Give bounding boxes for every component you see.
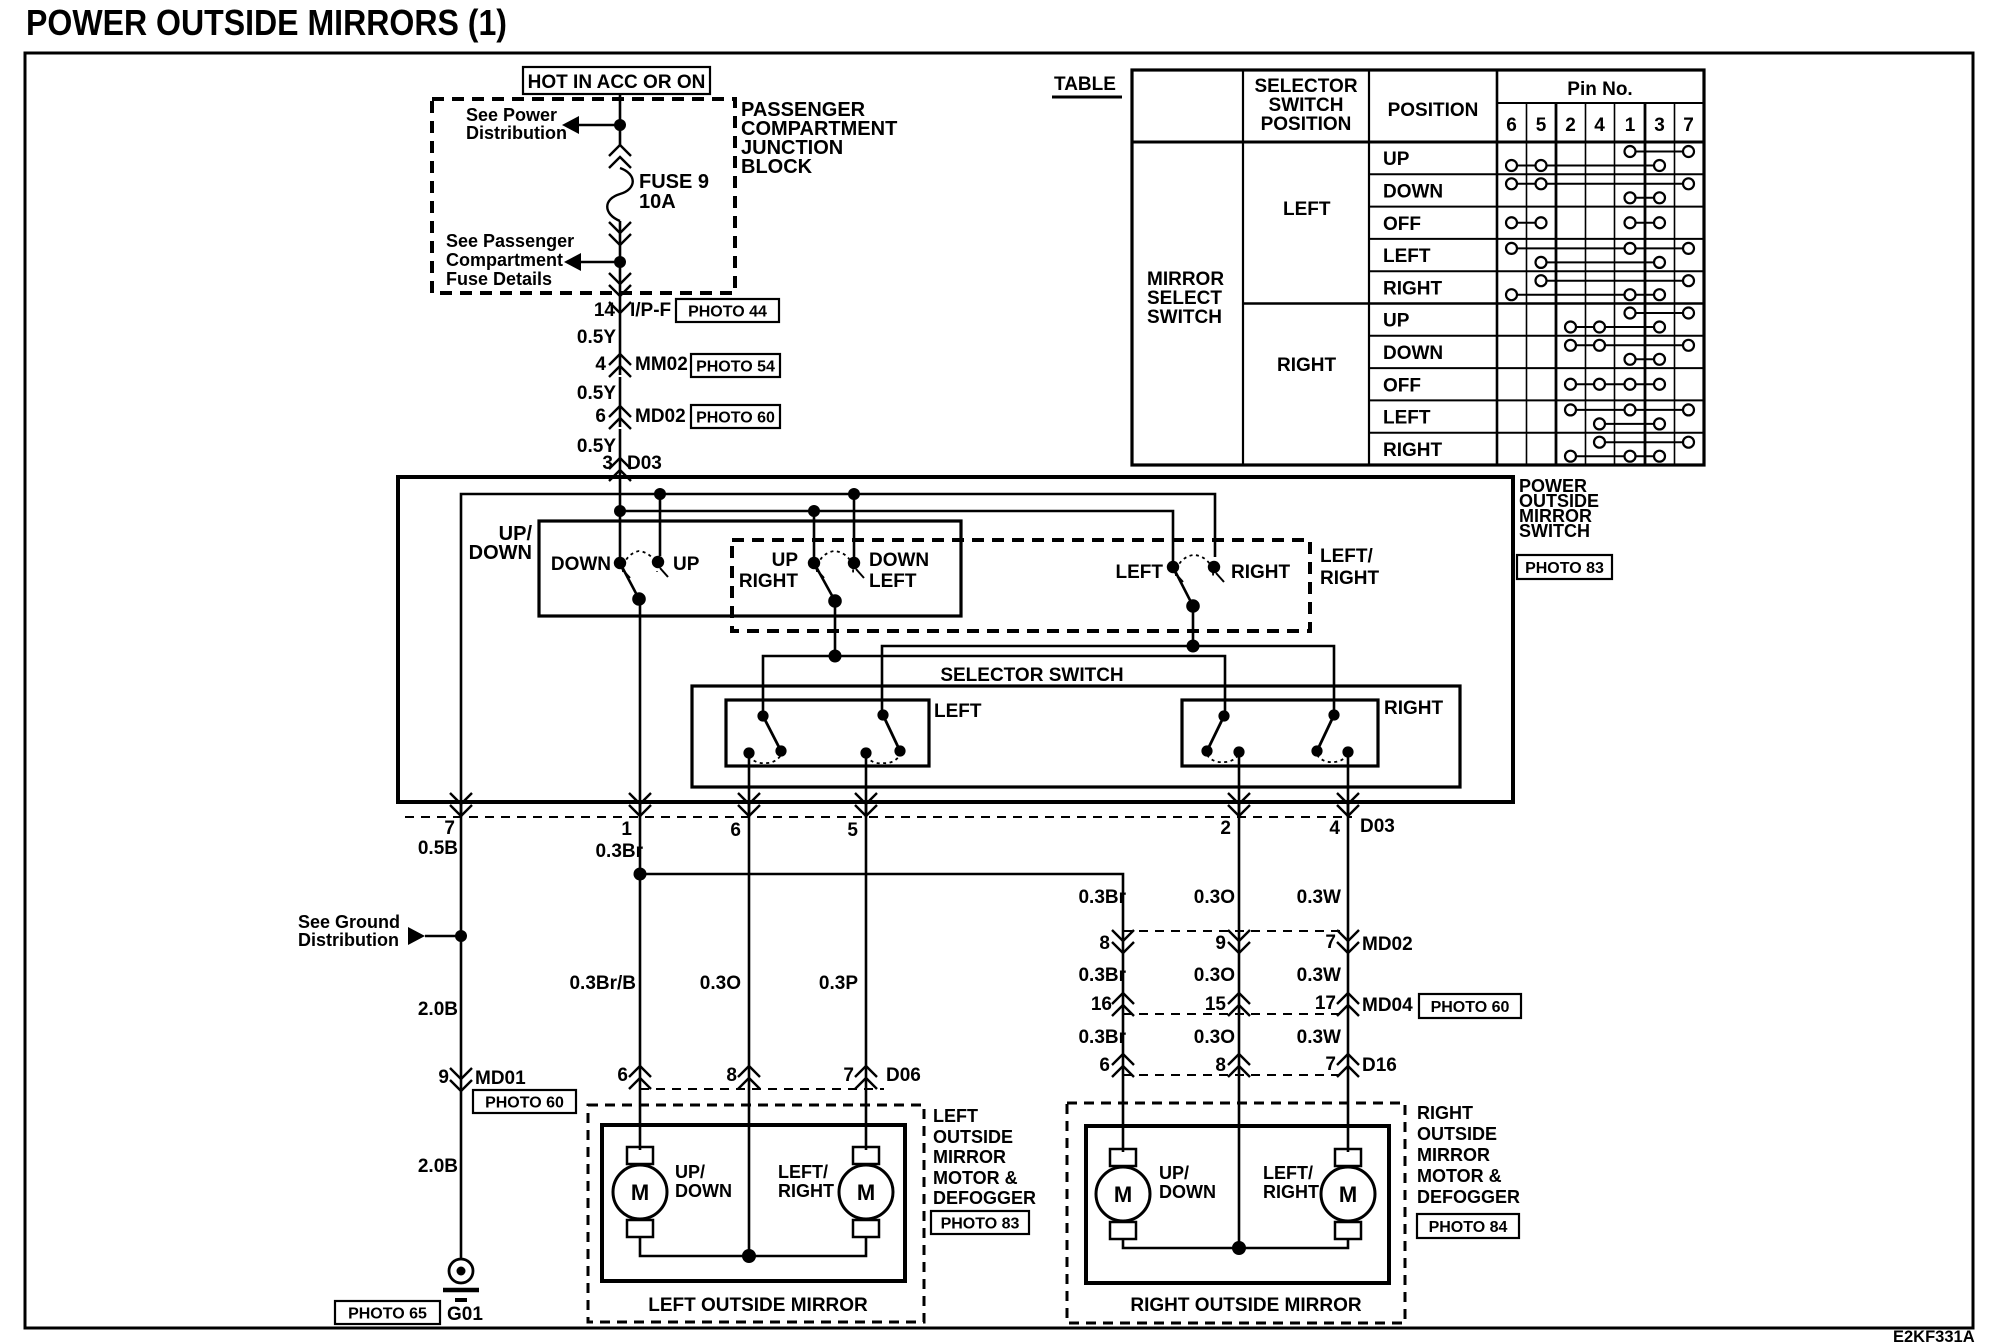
wire S2 common down (834, 601, 837, 656)
motor M4 right-mirror left/right body (1321, 1167, 1375, 1221)
svg-text:0.3Br: 0.3Br (1078, 965, 1126, 986)
svg-text:LEFT/: LEFT/ (1263, 1163, 1313, 1183)
node J1 see power distribution tap (614, 119, 626, 131)
svg-text:3: 3 (1654, 115, 1665, 136)
svg-text:RIGHT: RIGHT (778, 1181, 834, 1201)
motor M2 left-mirror left/right brush top (853, 1147, 879, 1164)
svg-text:PHOTO 60: PHOTO 60 (485, 1094, 564, 1111)
svg-text:8: 8 (1215, 1055, 1226, 1076)
table header line below Pin No. (1497, 102, 1704, 104)
wire left mirror common rail (640, 1236, 866, 1256)
svg-text:Fuse Details: Fuse Details (446, 269, 552, 289)
switch S2 up-right/down-left travel arc (817, 551, 853, 573)
svg-text:See Power: See Power (466, 105, 557, 125)
motor M3 right-mirror up/down body (1096, 1167, 1150, 1221)
svg-text:MM02: MM02 (635, 354, 688, 375)
svg-text:0.3O: 0.3O (700, 973, 741, 994)
svg-text:UP/: UP/ (1159, 1163, 1189, 1183)
svg-text:MIRROR: MIRROR (933, 1147, 1006, 1167)
selector D (right mirror l/r) top contact (1328, 709, 1339, 720)
connector D16 pin 8 arrows (1228, 1054, 1250, 1065)
connector D06 pin 8 arrows (738, 1066, 760, 1077)
photo ref PHOTO 84 (1417, 1214, 1519, 1238)
svg-text:TABLE: TABLE (1054, 74, 1116, 95)
svg-text:DOWN: DOWN (469, 542, 532, 564)
left outside mirror inner box (602, 1125, 905, 1281)
node UP-R1 junction (654, 488, 666, 500)
table column line col1-col2 (1242, 70, 1244, 465)
wire to see power distribution (578, 124, 620, 127)
node branch to right mirror (634, 868, 647, 881)
selector B (left mirror l/r) travel arc (866, 755, 900, 763)
selector C (right mirror up/down) arm tip (1201, 745, 1212, 756)
wire rail R2 (feed tie) (620, 511, 1173, 563)
svg-text:PHOTO 54: PHOTO 54 (696, 358, 775, 375)
svg-text:9: 9 (438, 1067, 449, 1088)
wire DOWN LEFT contact drop (853, 494, 856, 558)
switch S1 up/down travel arc (623, 551, 657, 572)
svg-text:0.3Br/B: 0.3Br/B (569, 973, 636, 994)
connector MD04 dashed line (1123, 1013, 1348, 1015)
right outside mirror dashed box (1067, 1103, 1405, 1323)
wire selector D output to pin4 (1347, 752, 1350, 817)
svg-text:UP/: UP/ (675, 1162, 705, 1182)
svg-text:5: 5 (1536, 115, 1547, 136)
connector MD02 pin 8 arrows (1112, 930, 1134, 941)
photo ref PHOTO 60 MD04 (1419, 994, 1521, 1018)
connector D03 pin 4 arrows (1337, 793, 1359, 804)
svg-text:LEFT: LEFT (933, 1106, 978, 1126)
switch S3 left/right common (1186, 599, 1200, 613)
svg-text:D16: D16 (1362, 1055, 1397, 1076)
photo ref PHOTO 65 (335, 1301, 440, 1324)
left outside mirror dashed box (588, 1105, 924, 1322)
svg-text:8: 8 (726, 1065, 737, 1086)
svg-text:6: 6 (595, 406, 606, 427)
connector D03 pin 1 arrows (629, 793, 651, 804)
svg-text:BLOCK: BLOCK (741, 156, 813, 178)
svg-text:M: M (1114, 1182, 1132, 1207)
selector switch box (692, 686, 1460, 787)
svg-text:7: 7 (1683, 115, 1694, 136)
svg-text:1: 1 (1625, 115, 1636, 136)
connector D06 pin 7 arrows (855, 1066, 877, 1077)
switch S3 left/right right contact (1208, 561, 1220, 573)
svg-text:PHOTO 83: PHOTO 83 (1525, 560, 1604, 577)
motor M4 right-mirror left/right brush top (1335, 1149, 1361, 1166)
photo ref PHOTO 54 (691, 354, 780, 377)
table contacts row LEFT OFF (1512, 222, 1542, 224)
svg-text:PHOTO 65: PHOTO 65 (348, 1305, 427, 1322)
wire feed into DOWN contact (619, 477, 622, 558)
wire I/P-F to MM02 (619, 313, 622, 375)
wire pin6 down to D06 (748, 802, 751, 1256)
table header bottom line (1132, 141, 1704, 144)
connector D16 pin 7 arrows (1337, 1054, 1359, 1065)
svg-text:PHOTO 60: PHOTO 60 (696, 409, 775, 426)
svg-text:SWITCH: SWITCH (1519, 521, 1590, 541)
svg-text:DOWN: DOWN (869, 550, 929, 571)
wire pin1 down to D06 (639, 802, 642, 1150)
svg-text:0.3O: 0.3O (1194, 1027, 1235, 1048)
svg-text:RIGHT: RIGHT (1384, 698, 1444, 719)
wire selector A output to pin6 (748, 753, 751, 817)
svg-text:2: 2 (1565, 115, 1576, 136)
wire rail R4 to selector tops (882, 646, 1334, 710)
ground G01 symbol (449, 1259, 473, 1283)
svg-text:M: M (1339, 1182, 1357, 1207)
selector D (right mirror l/r) output contact (1342, 746, 1353, 757)
svg-text:POWER OUTSIDE MIRRORS (1): POWER OUTSIDE MIRRORS (1) (26, 2, 507, 43)
svg-text:RIGHT: RIGHT (1383, 440, 1443, 461)
svg-text:4: 4 (1594, 115, 1605, 136)
selector C (right mirror up/down) output contact (1233, 746, 1244, 757)
svg-text:2.0B: 2.0B (418, 1156, 458, 1177)
right outside mirror inner box (1086, 1126, 1389, 1283)
svg-text:OUTSIDE: OUTSIDE (933, 1127, 1013, 1147)
svg-text:RIGHT: RIGHT (1277, 355, 1337, 376)
motor M3 right-mirror up/down brush top (1110, 1149, 1136, 1166)
up/down switch box (539, 521, 961, 616)
table column line col2-col3 (1368, 70, 1370, 465)
connector MD04 pin 16 arrows (1112, 993, 1134, 1004)
connector MD01 pin 9 arrows (450, 1068, 472, 1079)
svg-text:UP: UP (1383, 311, 1410, 332)
svg-text:3: 3 (602, 453, 613, 474)
switch S3 left/right travel arc (1176, 555, 1213, 577)
svg-text:D06: D06 (886, 1065, 921, 1086)
svg-text:0.3O: 0.3O (1194, 887, 1235, 908)
svg-text:DOWN: DOWN (1383, 181, 1443, 202)
svg-text:RIGHT OUTSIDE MIRROR: RIGHT OUTSIDE MIRROR (1130, 1295, 1361, 1316)
switch S3 left/right arm (1173, 567, 1193, 606)
photo ref PHOTO 60 MD01 (473, 1090, 576, 1113)
table contacts row LEFT LEFT (1512, 247, 1689, 249)
svg-text:RIGHT: RIGHT (1383, 278, 1443, 299)
selector A (left mirror up/down) top contact (757, 710, 768, 721)
selector RIGHT box (1182, 700, 1378, 766)
svg-text:4: 4 (595, 354, 606, 375)
svg-text:OFF: OFF (1383, 214, 1421, 235)
svg-text:HOT IN ACC OR ON: HOT IN ACC OR ON (528, 72, 706, 93)
svg-text:9: 9 (1215, 933, 1226, 954)
svg-text:LEFT: LEFT (869, 571, 917, 592)
svg-text:17: 17 (1315, 993, 1336, 1014)
svg-text:PHOTO 83: PHOTO 83 (941, 1215, 1020, 1232)
svg-text:7: 7 (1325, 932, 1336, 953)
svg-text:0.5Y: 0.5Y (577, 383, 616, 404)
svg-text:Distribution: Distribution (466, 123, 567, 143)
passenger compartment junction block (dashed) (432, 99, 735, 293)
svg-text:D03: D03 (1360, 816, 1395, 837)
svg-text:RIGHT: RIGHT (1231, 562, 1291, 583)
connector MD04 pin 15 arrows (1228, 993, 1250, 1004)
svg-text:LEFT: LEFT (1383, 408, 1431, 429)
motor M1 left-mirror up/down brush bottom (627, 1220, 653, 1237)
table outer border (1132, 70, 1704, 465)
connector MD04 pin 17 arrows (1337, 993, 1359, 1004)
table contacts row RIGHT UP (1630, 312, 1689, 314)
svg-text:MD02: MD02 (1362, 934, 1413, 955)
svg-text:0.3Br: 0.3Br (595, 841, 643, 862)
svg-text:1: 1 (621, 819, 632, 840)
svg-text:Compartment: Compartment (446, 250, 563, 270)
wire S3 common down (1192, 605, 1195, 646)
node J2 see fuse details tap (614, 256, 626, 268)
svg-text:PHOTO 60: PHOTO 60 (1431, 999, 1510, 1016)
motor M2 left-mirror left/right body (839, 1165, 893, 1219)
svg-text:DOWN: DOWN (1159, 1182, 1216, 1202)
connector arrow above fuse (609, 145, 631, 156)
wire UP contact drop (659, 494, 662, 556)
wire ground distribution tap (425, 935, 461, 938)
table pin column lines (1526, 103, 1528, 465)
svg-text:M: M (631, 1180, 649, 1205)
selector A (left mirror up/down) arm tip (775, 745, 786, 756)
connector MD02 pin 7 arrows (1337, 930, 1359, 941)
switch S2 up-right/down-left left contact (808, 557, 820, 569)
selector A (left mirror up/down) output contact (743, 747, 754, 758)
switch S1 up/down left contact (614, 557, 626, 569)
node right mirror rail junction (1232, 1241, 1246, 1255)
switch S1 up/down right contact (652, 556, 664, 568)
svg-text:See Passenger: See Passenger (446, 231, 574, 251)
motor M1 left-mirror up/down body (613, 1165, 667, 1219)
node DOWNLEFT-R1 junction (848, 488, 860, 500)
svg-text:SWITCH: SWITCH (1147, 307, 1222, 328)
selector C (right mirror up/down) travel arc (1207, 754, 1239, 762)
arrow see passenger fuse details (564, 253, 581, 271)
svg-text:7: 7 (444, 818, 455, 839)
svg-text:10A: 10A (639, 191, 676, 213)
table contacts row LEFT DOWN (1512, 183, 1689, 185)
svg-text:MOTOR &: MOTOR & (1417, 1166, 1502, 1186)
selector D (right mirror l/r) arm (1317, 715, 1334, 751)
svg-text:MD04: MD04 (1362, 995, 1413, 1016)
svg-text:PHOTO 84: PHOTO 84 (1429, 1219, 1508, 1236)
svg-text:LEFT: LEFT (934, 701, 982, 722)
switch S2 up-right/down-left right contact (848, 557, 860, 569)
svg-text:LEFT/: LEFT/ (778, 1162, 828, 1182)
svg-text:G01: G01 (447, 1304, 483, 1325)
svg-text:7: 7 (1325, 1054, 1336, 1075)
connector D03 dashed line at switch bottom (405, 816, 1352, 818)
connector D06 pin 6 arrows (629, 1066, 651, 1077)
connector D03 pin 5 arrows (855, 793, 877, 804)
svg-text:MD01: MD01 (475, 1068, 526, 1089)
svg-text:LEFT: LEFT (1116, 562, 1164, 583)
svg-text:M: M (857, 1180, 875, 1205)
svg-text:I/P-F: I/P-F (630, 300, 671, 321)
svg-text:See Ground: See Ground (298, 912, 400, 932)
svg-text:6: 6 (730, 820, 741, 841)
svg-text:LEFT/: LEFT/ (1320, 546, 1373, 567)
switch S1 up/down common (632, 592, 646, 606)
svg-text:DEFOGGER: DEFOGGER (933, 1188, 1036, 1208)
svg-text:0.5B: 0.5B (418, 838, 458, 859)
selector B (left mirror l/r) arm tip (894, 745, 905, 756)
node UPRIGHT-R2 junction (808, 505, 820, 517)
svg-text:DOWN: DOWN (1383, 343, 1443, 364)
selector B (left mirror l/r) output contact (860, 747, 871, 758)
arrow see power distribution (562, 116, 579, 134)
wire S1 common to pin1 (639, 599, 642, 817)
wire rail R3 to selector tops (763, 656, 1225, 711)
svg-text:UP: UP (772, 550, 799, 571)
svg-text:2: 2 (1220, 818, 1231, 839)
wire rail R1 (pin7 tie) (461, 494, 1215, 817)
svg-text:DOWN: DOWN (675, 1181, 732, 1201)
wire UP RIGHT contact drop (813, 511, 816, 558)
photo ref PHOTO 44 (676, 299, 779, 322)
table contacts row RIGHT RIGHT (1600, 441, 1689, 443)
svg-text:LEFT: LEFT (1283, 199, 1331, 220)
svg-text:UP: UP (1383, 149, 1410, 170)
table contacts row RIGHT LEFT (1571, 409, 1689, 411)
svg-text:PHOTO 44: PHOTO 44 (688, 303, 767, 320)
connector MD02 dashed line (1123, 930, 1348, 932)
selector C (right mirror up/down) arm (1207, 716, 1224, 751)
svg-text:0.3W: 0.3W (1297, 1027, 1341, 1048)
svg-text:8: 8 (1099, 933, 1110, 954)
node S2-R3 junction (829, 650, 842, 663)
svg-text:SELECTOR: SELECTOR (1254, 76, 1357, 97)
svg-text:6: 6 (1506, 115, 1517, 136)
svg-text:POSITION: POSITION (1388, 100, 1479, 121)
svg-text:SELECT: SELECT (1147, 288, 1222, 309)
table contacts row LEFT UP (1630, 151, 1689, 153)
svg-text:MIRROR: MIRROR (1147, 269, 1224, 290)
svg-text:0.3W: 0.3W (1297, 965, 1341, 986)
svg-text:0.5Y: 0.5Y (577, 327, 616, 348)
wire to see passenger fuse details (580, 261, 620, 264)
selector A (left mirror up/down) travel arc (749, 755, 781, 763)
svg-text:Distribution: Distribution (298, 930, 399, 950)
wire 0.3Br branch to right mirror (640, 874, 1123, 1152)
selector C (right mirror up/down) top contact (1218, 710, 1229, 721)
svg-text:DEFOGGER: DEFOGGER (1417, 1187, 1520, 1207)
updown dashed box (UP RIGHT / DOWN LEFT) (732, 540, 1310, 631)
svg-text:D03: D03 (627, 453, 662, 474)
svg-text:15: 15 (1205, 994, 1227, 1015)
selector D (right mirror l/r) travel arc (1317, 754, 1348, 762)
connector I/P-F pin 14 arrows (609, 273, 631, 284)
photo ref PHOTO 83 switch (1517, 555, 1612, 579)
selector A (left mirror up/down) arm (763, 716, 781, 751)
svg-text:4: 4 (1329, 818, 1340, 839)
node ground tap junction (455, 930, 467, 942)
svg-text:16: 16 (1091, 994, 1112, 1015)
svg-text:0.3O: 0.3O (1194, 965, 1235, 986)
svg-text:MD02: MD02 (635, 406, 686, 427)
wire selector B output to pin5 (865, 753, 868, 817)
svg-text:MOTOR &: MOTOR & (933, 1168, 1018, 1188)
connector D16 pin 6 arrows (1112, 1054, 1134, 1065)
wire feed from HOT to fuse (619, 94, 622, 146)
svg-text:OUTSIDE: OUTSIDE (1417, 1124, 1497, 1144)
connector D03 pin 6 arrows (738, 793, 760, 804)
svg-text:POSITION: POSITION (1261, 114, 1352, 135)
fuse F9 symbol (607, 168, 633, 221)
table row lines (1369, 173, 1704, 175)
selector D (right mirror l/r) arm tip (1311, 745, 1322, 756)
svg-text:LEFT: LEFT (1383, 246, 1431, 267)
svg-text:0.3W: 0.3W (1297, 887, 1341, 908)
svg-text:0.3P: 0.3P (819, 973, 858, 994)
svg-text:DOWN: DOWN (551, 554, 611, 575)
svg-text:UP: UP (673, 554, 700, 575)
svg-text:6: 6 (1099, 1055, 1110, 1076)
photo ref PHOTO 83 left mirror (931, 1211, 1029, 1234)
connector D03 pin 7 arrows (450, 793, 472, 804)
wire pin5 down to D06 (865, 802, 868, 1150)
svg-text:E2KF331A: E2KF331A (1893, 1328, 1975, 1344)
connector D06 dashed line (640, 1088, 884, 1090)
motor M2 left-mirror left/right brush bottom (853, 1220, 879, 1237)
svg-text:LEFT OUTSIDE MIRROR: LEFT OUTSIDE MIRROR (648, 1295, 868, 1316)
connector arrow below fuse (609, 222, 631, 233)
selector B (left mirror l/r) arm (883, 715, 900, 751)
svg-text:MIRROR: MIRROR (1417, 1145, 1490, 1165)
motor M4 right-mirror left/right brush bottom (1335, 1222, 1361, 1239)
svg-text:5: 5 (847, 820, 858, 841)
switch S3 left/right left contact (1167, 561, 1179, 573)
wire fuse to tap2 (619, 221, 622, 313)
svg-text:Pin No.: Pin No. (1567, 79, 1632, 100)
photo ref PHOTO 60 top (691, 405, 780, 428)
switch S1 up/down arm (620, 563, 639, 599)
wire MM02 to MD02 (619, 377, 622, 427)
svg-text:2.0B: 2.0B (418, 999, 458, 1020)
table column line col3-pins (1496, 70, 1499, 465)
svg-text:RIGHT: RIGHT (1417, 1103, 1473, 1123)
svg-text:6: 6 (617, 1065, 628, 1086)
power outside mirror switch box (398, 477, 1513, 802)
label HOT IN ACC OR ON (523, 67, 710, 94)
svg-text:RIGHT: RIGHT (1263, 1182, 1319, 1202)
table contacts row RIGHT DOWN (1571, 344, 1689, 346)
svg-text:RIGHT: RIGHT (1320, 568, 1380, 589)
connector MD02 pin 6 arrows (609, 406, 631, 417)
svg-text:SELECTOR SWITCH: SELECTOR SWITCH (940, 665, 1123, 686)
wire pin2 down (1238, 802, 1241, 1246)
svg-text:7: 7 (843, 1065, 854, 1086)
switch S2 up-right/down-left arm (814, 563, 835, 601)
svg-text:SWITCH: SWITCH (1269, 95, 1344, 116)
wire selector C output to pin2 (1238, 752, 1241, 817)
connector D03 pin 2 arrows (1228, 793, 1250, 804)
node left mirror rail junction (742, 1249, 756, 1263)
node S3-R4 junction (1187, 640, 1200, 653)
arrow see ground distribution (408, 927, 425, 945)
connector MM02 pin 4 arrows (609, 354, 631, 365)
svg-text:OFF: OFF (1383, 375, 1421, 396)
table contacts row LEFT RIGHT (1541, 280, 1689, 282)
svg-text:14: 14 (594, 300, 616, 321)
wire pin4 down (1347, 802, 1350, 1152)
selector LEFT box (726, 700, 929, 766)
wire pin7 ground run (460, 802, 463, 1259)
wire right mirror common rail (1123, 1238, 1348, 1248)
svg-text:0.3Br: 0.3Br (1078, 887, 1126, 908)
svg-text:0.3Br: 0.3Br (1078, 1027, 1126, 1048)
node feed-R2 junction (614, 505, 626, 517)
motor M1 left-mirror up/down brush top (627, 1147, 653, 1164)
svg-text:FUSE 9: FUSE 9 (639, 171, 709, 193)
connector D16 dashed line (1123, 1074, 1348, 1076)
svg-text:RIGHT: RIGHT (739, 571, 799, 592)
selector B (left mirror l/r) top contact (877, 709, 888, 720)
